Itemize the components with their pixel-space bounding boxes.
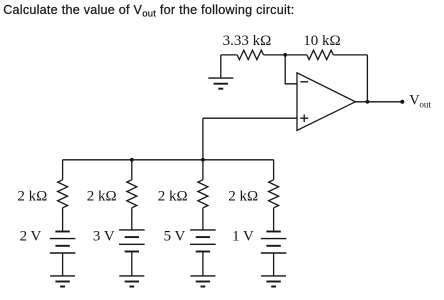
svg-text:3 V: 3 V — [93, 229, 115, 245]
svg-text:1 V: 1 V — [232, 229, 254, 245]
svg-text:2 kΩ: 2 kΩ — [228, 188, 258, 204]
svg-text:2 V: 2 V — [20, 229, 42, 245]
svg-text:out: out — [419, 100, 431, 110]
svg-text:2 kΩ: 2 kΩ — [87, 188, 117, 204]
svg-text:2 kΩ: 2 kΩ — [17, 188, 47, 204]
svg-text:3.33 kΩ: 3.33 kΩ — [223, 33, 272, 49]
svg-text:10 kΩ: 10 kΩ — [303, 33, 340, 49]
svg-text:5 V: 5 V — [164, 229, 186, 245]
svg-text:2 kΩ: 2 kΩ — [158, 188, 188, 204]
